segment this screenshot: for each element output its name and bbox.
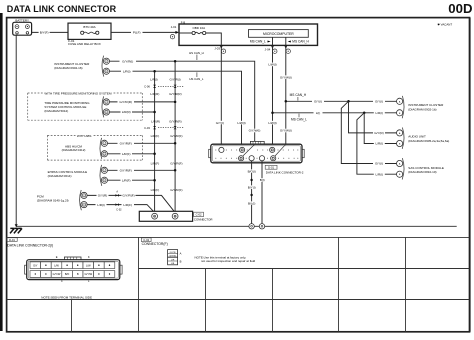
dashed option box TPMS: [28, 93, 143, 120]
svg-text:BTN 40A: BTN 40A: [83, 25, 95, 29]
svg-text:MS CAN_L: MS CAN_L: [291, 117, 307, 121]
svg-text:G/Y(I): G/Y(I): [375, 162, 383, 166]
D-01 cells row 1: [30, 262, 115, 269]
footer divider x205.3: [205, 269, 207, 332]
svg-text:✱ VACANT: ✱ VACANT: [437, 23, 452, 27]
tire pressure monitoring system control module: [44, 96, 109, 117]
svg-text:G/Y/R(R): G/Y/R(R): [169, 119, 182, 123]
ABS HU/CM: [62, 138, 108, 159]
EHPAS control module: [48, 165, 108, 186]
label L(I) mid: [314, 111, 323, 115]
svg-text:L/R(F): L/R(F): [151, 134, 160, 138]
label B/L(I): [246, 201, 258, 205]
svg-text:G/Y/R(F): G/Y/R(F): [120, 169, 132, 173]
label G/Y/W(I) on MS CAN_H drop: [278, 75, 293, 79]
label B(I): [259, 178, 266, 182]
svg-text:G/Y/R(I): G/Y/R(I): [122, 59, 133, 63]
svg-text:L/B: L/B: [171, 263, 175, 265]
svg-text:HS CAN_L: HS CAN_L: [189, 77, 204, 81]
D-01 cell texts row 2: [53, 272, 93, 276]
label L/R(I) at SAS: [374, 172, 385, 176]
svg-text:C-02: C-02: [196, 213, 202, 217]
svg-text:(DIAGRAM 0810-10): (DIAGRAM 0810-10): [408, 170, 436, 174]
svg-text:G/Y/B: G/Y/B: [170, 252, 176, 254]
svg-text:L/W(I): L/W(I): [268, 121, 276, 125]
label L/W(I) on MS CAN_L drop: [267, 63, 279, 67]
label HS CAN_H: [189, 51, 204, 60]
svg-text:B/O: B/O: [65, 272, 69, 276]
splice dot: [250, 194, 252, 196]
svg-text:G/Y/W(I): G/Y/W(I): [249, 129, 261, 133]
branch wire to SAS G/Y: [341, 101, 396, 163]
audio unit: [397, 128, 450, 149]
svg-text:(DIAGRAM 0614): (DIAGRAM 0614): [48, 174, 72, 178]
label L/R(I) on HS CAN_L: [121, 69, 133, 73]
svg-text:G/Y/R(R): G/Y/R(R): [119, 100, 132, 104]
svg-text:B/Y(I): B/Y(I): [248, 185, 256, 189]
svg-text:L/R(I): L/R(I): [375, 111, 383, 115]
wire ground rail: [16, 225, 457, 227]
label B/Y(I): [246, 185, 258, 189]
label G/Y(I) at SAS: [373, 162, 385, 166]
footer band line 2: [139, 268, 470, 270]
footer divider x71.8: [71, 300, 73, 332]
inline connector C-02 terminal B on PCM wire: [116, 203, 123, 211]
C-02 terminal table: [168, 250, 182, 266]
page edge scan bar: [0, 13, 3, 331]
svg-text:B: B: [77, 272, 79, 276]
label G/Y(I) on J-03 drop: [214, 121, 226, 125]
svg-text:(DIAGRAM 0902-16): (DIAGRAM 0902-16): [54, 66, 82, 70]
svg-text:L/R(R): L/R(R): [151, 119, 160, 123]
ground eyelet terminal 2: [259, 224, 264, 229]
label MS CAN_L right: [291, 114, 307, 122]
wire battery to fuse box: [32, 31, 68, 33]
svg-text:L/R(I): L/R(I): [375, 142, 383, 146]
svg-text:B/L(I): B/L(I): [248, 201, 255, 205]
label HS CAN_L: [189, 72, 204, 81]
label G/Y/W(I) lower on MS CAN_H drop: [278, 129, 293, 133]
svg-text:G/Y(R): G/Y(R): [98, 194, 107, 198]
instrument cluster (left): [54, 56, 109, 77]
wire MS CAN_H drop to DLC-2: [285, 45, 287, 144]
svg-text:C-02: C-02: [116, 209, 122, 212]
wire PCM G/Y(R) to terminal B: [87, 195, 175, 212]
svg-text:B: B: [180, 260, 182, 264]
wire EHPAS G/Y/R(F): [108, 169, 175, 171]
svg-text:B/O(I): B/O(I): [248, 169, 256, 173]
svg-text:L/R(I): L/R(I): [123, 69, 131, 73]
svg-text:D-01: D-01: [268, 165, 274, 169]
wire L row to instrument cluster: [273, 112, 397, 114]
footer band line 3: [7, 299, 470, 301]
svg-text:WITH TIRE PRESSURE MONITORING: WITH TIRE PRESSURE MONITORING SYSTEM: [44, 91, 112, 95]
svg-text:J-03: J-03: [214, 46, 220, 50]
wire ABS L/R(F): [108, 153, 155, 155]
svg-text:L/R(I): L/R(I): [375, 172, 383, 176]
svg-text:G/Y/W(I): G/Y/W(I): [280, 75, 292, 79]
label C-02 CONNECTOR(F): [141, 238, 167, 246]
svg-text:HS CAN_H: HS CAN_H: [189, 51, 204, 55]
svg-text:B/Y(F): B/Y(F): [40, 31, 49, 35]
wire PCM L/R(I) to terminal A: [87, 205, 154, 213]
footer divider x405.1: [405, 237, 407, 331]
svg-text:G/Y/R(I): G/Y/R(I): [170, 77, 181, 81]
svg-text:MICROCOMPUTER: MICROCOMPUTER: [263, 32, 294, 36]
svg-text:FUSE AND RELAY BOX: FUSE AND RELAY BOX: [68, 42, 101, 46]
label D-01: [7, 238, 53, 248]
svg-text:DATA LINK CONNECTOR-2: DATA LINK CONNECTOR-2: [266, 170, 304, 174]
svg-text:L/W: L/W: [86, 263, 91, 267]
fuse BTN 40A: [81, 31, 84, 34]
svg-text:E: E: [56, 255, 58, 259]
wire TPMS L/R(R): [110, 111, 155, 113]
branch wire to audio G/Y: [349, 101, 397, 133]
connector J-01: [170, 25, 179, 39]
svg-text:J-04: J-04: [265, 47, 271, 51]
label L/W(I) on drop x241: [236, 121, 248, 125]
svg-text:G/Y(R): G/Y(R): [374, 131, 383, 135]
svg-text:WITH ABS: WITH ABS: [77, 134, 92, 138]
connector J-04: [265, 45, 291, 53]
branch wire to SAS L/R: [357, 113, 397, 174]
svg-text:G/Y/R(F): G/Y/R(F): [170, 134, 182, 138]
svg-text:MS CAN_L: MS CAN_L: [250, 40, 266, 44]
svg-text:(DIAGRAM 5012): (DIAGRAM 5012): [44, 109, 68, 113]
svg-text:L/W: L/W: [54, 263, 59, 267]
svg-text:L/W(I): L/W(I): [268, 63, 276, 67]
svg-text:G/Y: G/Y: [33, 263, 38, 267]
svg-text:L/R(R): L/R(R): [122, 110, 131, 114]
svg-text:G/Y/R(F): G/Y/R(F): [122, 194, 134, 198]
svg-text:J-01: J-01: [171, 25, 177, 29]
svg-text:G/Y/R(F): G/Y/R(F): [170, 188, 182, 192]
svg-text:G/Y(I): G/Y(I): [216, 121, 224, 125]
wire OBD fuse to J-03: [206, 33, 222, 45]
C-02 connector box: [139, 211, 212, 221]
inline connector C-03: [144, 126, 184, 130]
label G/Y(I) mid: [312, 100, 324, 104]
label G/Y(R) at audio: [373, 131, 385, 135]
svg-text:MS CAN_H: MS CAN_H: [290, 93, 307, 97]
wire J-03 G/Y(I) drop to DLC-2: [220, 45, 222, 144]
svg-text:00D: 00D: [448, 1, 472, 16]
DLC-2 interior dots: [215, 150, 298, 159]
svg-text:L/R(R): L/R(R): [150, 92, 159, 96]
label L/W(I) lower on MS CAN_L drop: [267, 121, 279, 125]
svg-text:G/Y/W: G/Y/W: [84, 272, 92, 276]
footer divider x138: [138, 237, 140, 331]
SAS control module: [397, 158, 444, 179]
svg-text:CONNECTOR: CONNECTOR: [194, 218, 213, 222]
wire ABS G/Y/R(F): [108, 142, 175, 144]
svg-text:(DIAGRAM 0412): (DIAGRAM 0412): [62, 148, 86, 152]
label G/Y/R(I) on HS CAN_H: [120, 59, 137, 63]
svg-text:not used for inspection and re: not used for inspection and repair at fi…: [201, 259, 256, 263]
wire HS CAN_L row L/R: [110, 71, 242, 144]
label G/Y(I) at IC: [373, 100, 385, 104]
inline connector C-02 terminal A on PCM wire: [116, 190, 119, 196]
label L/R(I) at audio: [374, 142, 385, 146]
svg-text:L/R(I): L/R(I): [97, 203, 105, 207]
connector J-03: [214, 45, 225, 53]
footer band line 1: [7, 236, 470, 238]
svg-text:G/Y(I): G/Y(I): [375, 100, 383, 104]
junction dots: [285, 100, 288, 103]
svg-text:K: K: [88, 255, 90, 259]
DLC-2 pins: [219, 147, 276, 161]
svg-text:C-03: C-03: [144, 126, 150, 130]
wire G/Y row to instrument cluster: [286, 100, 397, 102]
svg-text:NOTE:SEEN FROM TERMINAL SIDE: NOTE:SEEN FROM TERMINAL SIDE: [41, 295, 92, 299]
svg-text:G/Y/W: G/Y/W: [53, 272, 61, 276]
dashed option box WITH ABS: [47, 135, 142, 160]
svg-text:(DIAGRAM 0902-1b): (DIAGRAM 0902-1b): [408, 107, 436, 111]
wire label B/Y(F): [39, 31, 50, 35]
DLC-2 internal jumper wires: [243, 144, 255, 156]
wire HS CAN_H row G/Y: [110, 61, 255, 144]
label L/R(I) at IC: [374, 111, 385, 115]
wire bus G/Y vertical: [174, 61, 176, 213]
svg-text:C-06: C-06: [144, 85, 150, 89]
svg-text:L/R(F): L/R(F): [123, 203, 132, 207]
svg-text:CONNECTOR(F): CONNECTOR(F): [142, 242, 168, 246]
wire B/O(I) drop from DLC-2: [251, 161, 253, 224]
svg-text:G/Y/R(F): G/Y/R(F): [170, 162, 182, 166]
svg-text:G/Y/R(R): G/Y/R(R): [169, 92, 182, 96]
svg-text:L/R: L/R: [171, 260, 175, 262]
label D-01 DATA LINK CONNECTOR-2: [265, 165, 304, 174]
svg-text:L/R(F): L/R(F): [122, 178, 131, 182]
svg-text:G/Y(I): G/Y(I): [314, 100, 322, 104]
wire label P(LF): [131, 31, 143, 35]
svg-text:DATA LINK CONNECTOR-2(I): DATA LINK CONNECTOR-2(I): [7, 243, 53, 247]
svg-text:L/R(F): L/R(F): [151, 188, 160, 192]
wire MS CAN_L drop to DLC-2: [272, 45, 274, 144]
D-01 cells row 2: [30, 271, 115, 278]
svg-text:D-01: D-01: [9, 238, 15, 242]
label B/O(I): [246, 169, 258, 173]
wire bus L/R vertical: [154, 71, 156, 213]
branch wire to audio L/R: [364, 113, 396, 144]
wire microcomputer MS CAN_L: [272, 37, 274, 45]
ground eyelet terminal 1: [249, 224, 254, 229]
wire B(I) drop from DLC-2: [261, 161, 263, 224]
D-01 cell texts row 1: [33, 263, 91, 267]
svg-text:G/Y/R(F): G/Y/R(F): [120, 142, 132, 146]
svg-text:L/R(F): L/R(F): [151, 162, 160, 166]
microcomputer U1: [249, 30, 310, 46]
svg-text:L/R(I): L/R(I): [150, 77, 158, 81]
battery: [13, 19, 32, 36]
svg-text:(DIAGRAM 0140-1g,2f): (DIAGRAM 0140-1g,2f): [37, 199, 69, 203]
wire fuse box to J-01: [111, 31, 177, 33]
wire EHPAS L/R(F): [108, 179, 155, 181]
svg-text:OBD 10A: OBD 10A: [192, 26, 205, 30]
label MS CAN_H right: [290, 93, 307, 100]
D-01 connector drawing: [25, 257, 123, 280]
junction dots on buses: [153, 60, 176, 182]
svg-text:MS CAN_H: MS CAN_H: [292, 40, 309, 44]
svg-text:DATA LINK CONNECTOR: DATA LINK CONNECTOR: [7, 4, 117, 14]
instrument cluster (right): [397, 96, 445, 118]
svg-text:G/Y/W(I): G/Y/W(I): [280, 129, 292, 133]
footer divider x338.5: [338, 237, 340, 331]
svg-text:A: A: [180, 251, 182, 255]
wire TPMS G/Y/R(R): [110, 101, 175, 103]
inline connector C-06: [144, 85, 184, 89]
splice dot: [250, 179, 252, 181]
svg-text:G/Y/W: G/Y/W: [169, 256, 176, 258]
wire microcomputer MS CAN_H: [285, 37, 287, 45]
svg-text:(DIAGRAM 0905-2a,3a,5a,6a): (DIAGRAM 0905-2a,3a,5a,6a): [408, 139, 449, 143]
svg-text:L(I): L(I): [316, 111, 321, 115]
chassis ground symbol: [10, 228, 22, 233]
label G/Y/W(I) on drop x254: [247, 129, 262, 133]
data link connector-2 body: [209, 141, 304, 162]
svg-text:P(LF): P(LF): [133, 31, 141, 35]
fuse block F-B: [179, 20, 318, 45]
svg-text:B(I): B(I): [260, 178, 265, 182]
fuse box F-01: [68, 23, 111, 46]
svg-text:L/W(I): L/W(I): [237, 121, 245, 125]
wire battery ground drop: [15, 35, 17, 226]
footer divider x272.6: [272, 269, 274, 332]
svg-text:L/R(F): L/R(F): [122, 152, 131, 156]
PCM: [37, 190, 87, 210]
